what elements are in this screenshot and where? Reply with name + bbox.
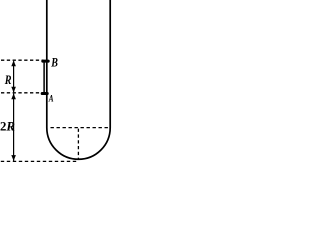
svg-text:R: R [4,73,12,87]
inner parallel line of segment AB [43,61,45,93]
dashed bottom reference line [1,160,78,162]
dashed vertical center line of bowl [77,129,79,160]
arrowhead down at bottom [11,155,16,161]
node A (blob) [41,92,49,95]
arrowhead up below A [11,93,16,99]
svg-text:B: B [50,57,58,70]
arrowhead up at B [11,60,16,66]
svg-text:2R: 2R [0,120,15,134]
dashed equator line of bowl [51,127,109,129]
dashed line at B level [1,59,44,61]
tube outline: left wall, hemispherical bowl, right wall [47,0,110,159]
background [0,0,115,166]
dimension line 2R (shaft) [13,94,15,161]
svg-text:A: A [48,94,54,104]
dashed line at A level [1,92,40,94]
dimension line R (shaft) [13,61,15,92]
node B (blob) [41,60,49,63]
arrowhead down at A [11,87,16,93]
